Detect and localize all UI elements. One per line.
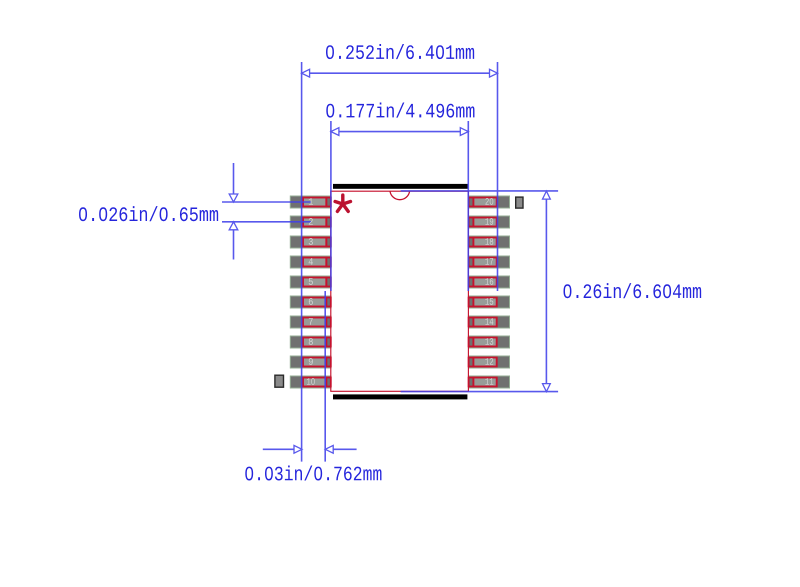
pad 19 (right column land pad) [469, 216, 510, 228]
pin lead 15 outline [469, 298, 497, 307]
pin number label 8 [309, 338, 313, 345]
arrowhead down pitch [229, 194, 238, 202]
dimension text 0.177in/4.496mm [326, 103, 474, 118]
pin lead 8 outline [303, 338, 331, 347]
arrowhead down 0.26in [543, 384, 551, 392]
pin lead 11 outline [469, 378, 497, 387]
pin lead 6 outline [303, 298, 331, 307]
arrowhead up pitch [229, 222, 238, 230]
orientation marker near pin 10 [275, 375, 284, 387]
pin-1 marker asterisk [335, 195, 350, 211]
pin number label 1 [309, 198, 313, 205]
pad 14 (right column land pad) [469, 316, 510, 328]
pin lead 7 outline [303, 318, 331, 327]
pad 10 (left column land pad) [290, 376, 331, 388]
pad 11 (right column land pad) [469, 376, 510, 388]
extension line left of 0.252in span [301, 62, 303, 462]
dimension text 0.03in/0.762mm [245, 465, 381, 480]
pin-1 end notch arc [390, 191, 410, 199]
pitch extension line pin 2 [222, 221, 311, 223]
0.03in dimension left leader [263, 448, 302, 450]
extension line right of 0.177in span [467, 121, 469, 291]
pin lead 5 outline [303, 278, 331, 287]
pin number label 17 [485, 258, 493, 265]
pin number label 18 [485, 238, 493, 245]
pitch dimension lower leader [233, 222, 235, 260]
pin number label 13 [485, 338, 493, 345]
pin lead 1 outline [303, 198, 331, 207]
pad 6 (left column land pad) [290, 296, 331, 308]
pad 3 (left column land pad) [290, 236, 331, 248]
pad 5 (left column land pad) [290, 276, 331, 288]
pad 7 (left column land pad) [290, 316, 331, 328]
pin number label 14 [485, 318, 493, 325]
arrowhead up 0.26in [543, 191, 551, 199]
arrowhead right 0.03in [294, 445, 302, 453]
pin lead 16 outline [469, 278, 497, 287]
extension line top of 0.26in span [401, 190, 558, 192]
pin lead 18 outline [469, 238, 497, 247]
pin number label 20 [485, 198, 493, 205]
pad 13 (right column land pad) [469, 336, 510, 348]
orientation marker near pin 20 [516, 197, 523, 208]
dimension line 0.252in/6.401mm [302, 72, 498, 74]
pin number label 3 [309, 238, 313, 245]
pad 4 (left column land pad) [290, 256, 331, 268]
pitch dimension upper leader [233, 163, 235, 202]
pad 2 (left column land pad) [290, 216, 331, 228]
extension line bottom of 0.26in span [401, 391, 558, 393]
pad 18 (right column land pad) [469, 236, 510, 248]
extension line left of 0.177in span [330, 121, 332, 291]
dimension text 0.26in/6.604mm [564, 283, 702, 298]
dimension line 0.26in/6.604mm [545, 191, 547, 392]
pin lead 3 outline [303, 238, 331, 247]
extension line right of 0.03in span [324, 291, 326, 462]
pin lead 13 outline [469, 338, 497, 347]
top assembly bar [333, 184, 468, 189]
extension line right of 0.252in span [497, 62, 499, 291]
pad 12 (right column land pad) [469, 356, 510, 368]
arrowhead right 0.177in [460, 128, 468, 136]
pad 20 (right column land pad) [469, 196, 510, 208]
pin number label 9 [309, 358, 313, 365]
pin number label 10 [307, 378, 315, 385]
arrowhead left 0.03in [325, 445, 333, 453]
pin lead 10 outline [303, 378, 331, 387]
dimension line 0.177in/4.496mm [331, 131, 468, 133]
bottom assembly bar [333, 394, 467, 399]
pin lead 19 outline [469, 218, 497, 227]
pin number label 12 [485, 358, 493, 365]
pin number label 16 [485, 278, 493, 285]
arrowhead right 0.252in [490, 69, 498, 77]
pitch extension line pin 1 [222, 201, 311, 203]
pin lead 20 outline [469, 198, 497, 207]
pin lead 12 outline [469, 358, 497, 367]
0.03in dimension right leader [325, 448, 356, 450]
pin number label 4 [309, 258, 313, 265]
pad 16 (right column land pad) [469, 276, 510, 288]
pin number label 11 [485, 378, 493, 385]
pad 9 (left column land pad) [290, 356, 331, 368]
pin lead 14 outline [469, 318, 497, 327]
pin lead 9 outline [303, 358, 331, 367]
pad 1 (left column land pad) [290, 196, 331, 208]
pin number label 15 [485, 298, 493, 305]
pad 15 (right column land pad) [469, 296, 510, 308]
pin number label 19 [485, 218, 493, 225]
arrowhead left 0.177in [331, 128, 339, 136]
pin number label 2 [309, 218, 313, 225]
pin lead 2 outline [303, 218, 331, 227]
pad 8 (left column land pad) [290, 336, 331, 348]
pin number label 6 [309, 298, 313, 305]
pin number label 7 [309, 318, 313, 325]
pin lead 17 outline [469, 258, 497, 267]
pad 17 (right column land pad) [469, 256, 510, 268]
pin number label 5 [309, 278, 313, 285]
arrowhead left 0.252in [302, 69, 310, 77]
dimension text 0.026in/0.65mm [79, 206, 218, 221]
component body outline U1 [331, 191, 469, 391]
dimension text 0.252in/6.401mm [326, 44, 474, 59]
pin lead 4 outline [303, 258, 331, 267]
